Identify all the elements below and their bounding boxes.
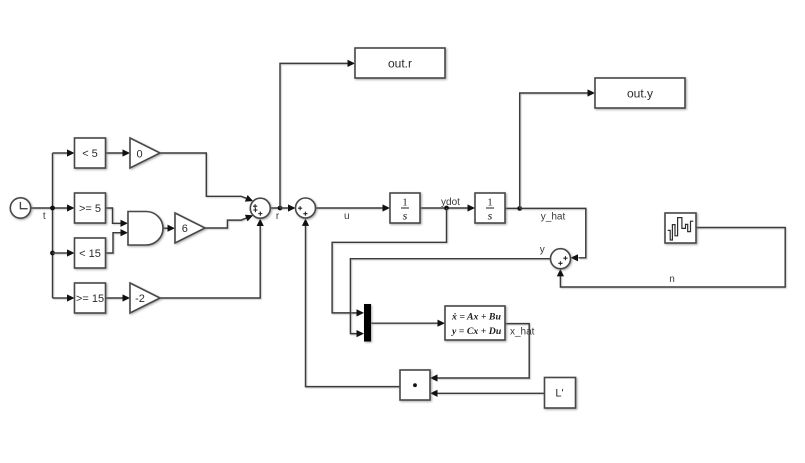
sum2 plus signs bbox=[298, 206, 308, 216]
dot product block bbox=[400, 370, 430, 400]
wire >= 5 to AND input 1 bbox=[106, 208, 122, 223]
wire AND to gain 6 bbox=[163, 227, 168, 229]
svg-text:>= 5: >= 5 bbox=[79, 203, 101, 215]
junction t at <15 row bbox=[50, 251, 55, 256]
wire branch to < 15 bbox=[53, 252, 68, 254]
wire ydot down to mux input1 bbox=[332, 208, 446, 313]
svg-text:1: 1 bbox=[487, 198, 492, 209]
state-space block bbox=[445, 306, 505, 340]
wire sum3 output y to mux input2 bbox=[350, 259, 550, 334]
AND gate bbox=[128, 212, 163, 246]
wire branch to >= 15 bbox=[53, 297, 68, 299]
junction ydot bbox=[444, 206, 449, 211]
svg-text:n: n bbox=[669, 274, 675, 285]
svg-text:u: u bbox=[344, 211, 350, 222]
integrator 2 bbox=[475, 193, 505, 223]
svg-text:r: r bbox=[276, 211, 280, 222]
wire branch to < 5 bbox=[53, 152, 68, 154]
svg-text:s: s bbox=[488, 209, 493, 223]
svg-text:-2: -2 bbox=[135, 293, 145, 305]
wire noise n to sum3 bottom bbox=[560, 228, 785, 288]
gain 6 triangle bbox=[175, 213, 205, 243]
svg-text:ẋ = Ax + Bu: ẋ = Ax + Bu bbox=[451, 312, 501, 323]
gain -2 triangle bbox=[130, 283, 160, 313]
svg-text:s: s bbox=[403, 209, 408, 223]
sum2 circle bbox=[296, 198, 316, 218]
relational block >= 15 bbox=[75, 283, 106, 313]
out.y block bbox=[595, 78, 685, 108]
svg-text:t: t bbox=[43, 211, 46, 222]
wire clock to >= 5 bbox=[31, 207, 68, 209]
gain 0 triangle bbox=[130, 138, 160, 168]
node t branch vertical bbox=[52, 153, 54, 298]
svg-text:0: 0 bbox=[136, 149, 142, 161]
relational block >= 5 bbox=[75, 193, 106, 223]
svg-text:y = Cx + Du: y = Cx + Du bbox=[451, 326, 502, 337]
svg-text:out.r: out.r bbox=[388, 57, 412, 71]
clock bbox=[10, 198, 30, 218]
band-limited white noise block bbox=[665, 213, 696, 243]
relational block < 15 bbox=[75, 238, 106, 268]
svg-text:x_hat: x_hat bbox=[510, 327, 535, 338]
sum1 circle bbox=[250, 198, 270, 218]
wire r up to out.r bbox=[280, 63, 348, 208]
wire state-space x_hat to dot product input1 bbox=[437, 324, 529, 378]
wire sum1 to sum2 bbox=[270, 207, 288, 209]
wire L' to dot product input2 bbox=[437, 392, 545, 394]
sum3 plus signs bbox=[558, 256, 567, 265]
wire >= 15 to gain -2 bbox=[106, 297, 124, 299]
svg-text:< 5: < 5 bbox=[82, 148, 98, 160]
svg-text:y: y bbox=[540, 245, 545, 256]
svg-text:out.y: out.y bbox=[627, 87, 653, 101]
wire < 15 to AND input 2 bbox=[106, 233, 122, 253]
svg-text:y_hat: y_hat bbox=[541, 212, 566, 223]
out.r block bbox=[355, 48, 445, 78]
wire gain 0 to sum1 bbox=[160, 153, 248, 199]
wire sum2 to integrator 1 (u) bbox=[316, 207, 384, 209]
wire mux to state-space bbox=[371, 322, 438, 324]
svg-text:6: 6 bbox=[182, 223, 188, 235]
wire integrator1 to integrator2 bbox=[420, 207, 468, 209]
relational block < 5 bbox=[75, 138, 106, 168]
junction y_hat bbox=[517, 206, 522, 211]
sum3 circle bbox=[551, 249, 571, 269]
svg-text:>= 15: >= 15 bbox=[76, 293, 104, 305]
svg-text:L': L' bbox=[555, 388, 563, 400]
wire integrator2 y_hat to sum3 bbox=[505, 208, 586, 257]
sum1 plus signs bbox=[253, 204, 262, 216]
wire dot product to sum2 bottom bbox=[306, 225, 401, 386]
svg-text:< 15: < 15 bbox=[79, 248, 101, 260]
junction t at >=5 row bbox=[50, 206, 55, 211]
wire gain -2 to sum1 bottom bbox=[160, 226, 260, 299]
svg-text:ydot: ydot bbox=[441, 197, 460, 208]
wire gain 6 to sum1 bbox=[205, 218, 248, 228]
mux bbox=[364, 304, 371, 342]
junction r bbox=[278, 206, 283, 211]
svg-text:1: 1 bbox=[402, 198, 407, 209]
wire y_hat up to out.y bbox=[520, 93, 588, 208]
integrator 1 bbox=[390, 193, 420, 223]
wire < 5 to gain 0 bbox=[106, 152, 124, 154]
L' block bbox=[545, 378, 576, 409]
